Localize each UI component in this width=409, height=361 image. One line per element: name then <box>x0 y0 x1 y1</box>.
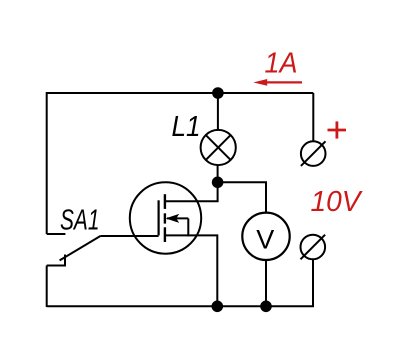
junction node top <box>212 87 224 99</box>
transistor gate bar <box>158 200 160 235</box>
transistor VT1 MOSFET body circle <box>130 182 201 253</box>
wire source lead <box>165 235 217 306</box>
terminal - (bottom right) <box>301 235 326 260</box>
wire substrate-to-source <box>187 218 189 236</box>
switch SA1 bottom contact <box>47 255 65 266</box>
wire top contact stub of switch <box>47 233 66 235</box>
lamp L1 <box>201 130 236 165</box>
terminal + (top right) <box>301 141 326 166</box>
wire bottom rail <box>47 259 313 306</box>
junction node below lamp <box>212 177 224 189</box>
transistor channel segment source <box>164 227 166 242</box>
transistor substrate arrow <box>166 214 189 223</box>
transistor channel segment drain <box>164 194 166 209</box>
wire lamp top lead <box>217 93 219 130</box>
svg-text:SA1: SA1 <box>60 204 100 236</box>
plus sign <box>328 121 347 138</box>
junction node source-bottom <box>212 301 224 313</box>
wire gate lead <box>101 235 159 237</box>
svg-text:V: V <box>256 224 274 254</box>
junction node voltmeter-bottom <box>260 301 272 313</box>
wire left bottom drop <box>46 266 48 308</box>
transistor channel segment substrate <box>164 213 166 223</box>
svg-text:1A: 1A <box>265 48 298 80</box>
wire top rail <box>47 93 314 234</box>
wire voltmeter bottom lead <box>265 260 267 306</box>
wire drain lead <box>165 182 218 201</box>
svg-text:10V: 10V <box>311 186 364 218</box>
wire junction to voltmeter <box>218 182 266 212</box>
current arrow <box>253 79 302 86</box>
wire right drop to plus terminal <box>312 93 314 141</box>
wire lamp bottom lead <box>217 165 219 182</box>
switch SA1 blade <box>60 236 101 261</box>
svg-text:L1: L1 <box>172 111 201 143</box>
voltmeter V <box>242 213 289 260</box>
